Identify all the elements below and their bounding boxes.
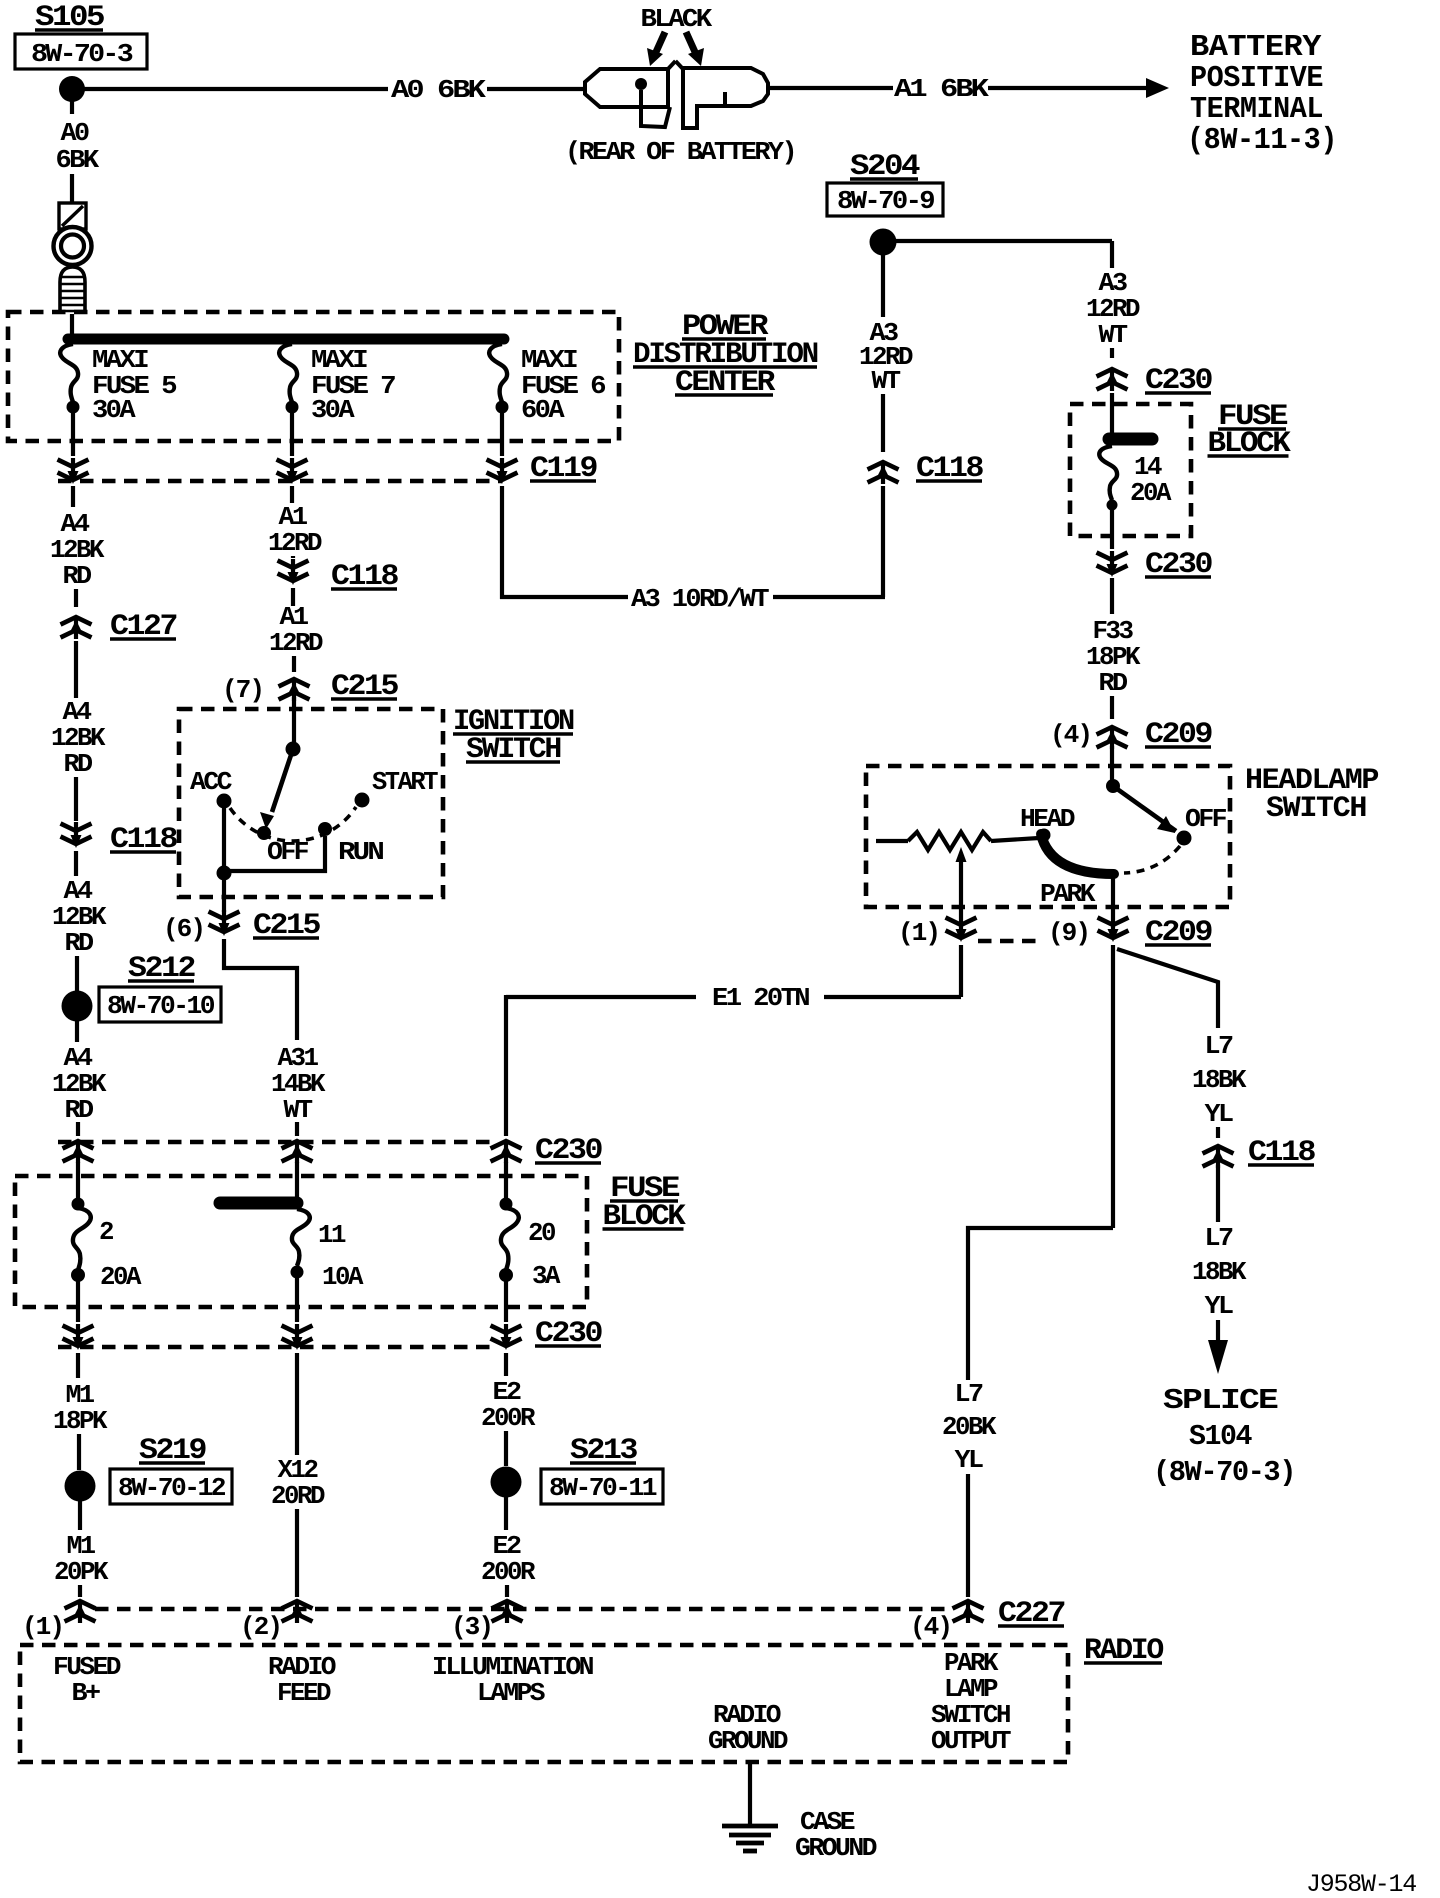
label RADIO FEED (268, 1652, 336, 1708)
label C209 pin 4 (1145, 718, 1212, 752)
label wire X12 20RD (271, 1455, 325, 1511)
wire fuse6 column down to A3 10RD/WT line (500, 486, 504, 599)
svg-text:START: START (372, 767, 438, 797)
wire E2 200R below fuse block (504, 1353, 508, 1376)
wire fuse 6 output to C119 (500, 412, 504, 456)
case ground symbol (722, 1826, 778, 1851)
connector C230 fuse2 entry (63, 1141, 94, 1163)
wire PARK output inside switch (1111, 874, 1115, 916)
label MAXI FUSE 6 60A (521, 345, 606, 425)
svg-text:L7: L7 (1205, 1223, 1233, 1253)
svg-text:(8W-70-3): (8W-70-3) (1153, 1456, 1295, 1489)
svg-text:12RD: 12RD (268, 528, 322, 558)
svg-text:18BK: 18BK (1192, 1065, 1247, 1095)
label fuse 14 20A (1130, 452, 1172, 508)
fuse 2 20A element (71, 1198, 91, 1283)
svg-text:PARK: PARK (1040, 879, 1096, 909)
wire A31 to fuse block (295, 1122, 299, 1136)
wire from RUN contact down and left to junction (224, 836, 325, 871)
connector C209 row dashed line (978, 939, 1042, 943)
svg-text:YL: YL (1205, 1099, 1234, 1129)
connector C209 pin 4 (1097, 727, 1128, 749)
svg-text:6BK: 6BK (56, 145, 100, 175)
label wire F33 18PK RD (1086, 616, 1141, 698)
connector C119 pin fuse5 (58, 458, 89, 484)
wire A4 to S212 (75, 956, 79, 991)
label pin (2) radio (240, 1612, 281, 1642)
wire into fuse 11 (295, 1162, 299, 1203)
label wire A1 12RD upper (268, 502, 322, 558)
svg-text:WT: WT (872, 366, 901, 396)
fuse 14 20A element (1099, 446, 1117, 511)
label ILLUMINATION LAMPS (432, 1652, 593, 1708)
in-line connector at rear of battery - left half (585, 69, 670, 127)
connector C230 right fuse block bottom (1097, 551, 1128, 577)
label wire A31 14BK WT (271, 1043, 326, 1125)
label C118 middle (331, 560, 398, 594)
node S204 splice label (827, 150, 943, 216)
wire into fuse 14 (1110, 393, 1114, 440)
wire M1 18PK below fuse block (76, 1353, 80, 1378)
svg-text:FEED: FEED (277, 1678, 331, 1708)
connector C230 into right fuse block (1097, 369, 1128, 391)
label fuse 20 and 3A (528, 1218, 561, 1291)
svg-text:OFF: OFF (267, 837, 309, 867)
svg-text:A0 6BK: A0 6BK (391, 75, 486, 105)
wire pin9 down long vertical (1111, 945, 1115, 1228)
svg-text:200R: 200R (481, 1403, 536, 1433)
svg-text:(3): (3) (451, 1612, 492, 1642)
fuse MAXI FUSE 6 60A element (489, 344, 508, 414)
connector C230 fuse20 exit (491, 1324, 522, 1350)
ignition switch OFF contact dot (257, 826, 271, 840)
connector C119 pin fuse6 (487, 458, 518, 484)
headlamp switch thick arc HEAD to PARK (1038, 829, 1115, 875)
wire fuse 20 output (504, 1280, 508, 1322)
label wire E2 200R upper (481, 1377, 536, 1433)
wire E1 20TN horizontal (506, 995, 961, 1136)
ignition switch dashed contact arc (230, 807, 356, 841)
wire C209 pin 4 into headlamp switch (1110, 746, 1114, 781)
svg-text:(4): (4) (910, 1612, 951, 1642)
wire into fuse 20 (504, 1162, 508, 1198)
label wire A0 6BK vertical (56, 118, 100, 175)
svg-text:YL: YL (955, 1445, 984, 1475)
svg-text:B+: B+ (72, 1678, 101, 1708)
connector C209 pin 9 (1098, 916, 1129, 942)
label START (372, 767, 438, 797)
svg-text:8W-70-9: 8W-70-9 (837, 186, 935, 216)
fuse MAXI FUSE 7 30A element (279, 344, 298, 414)
svg-text:BATTERY: BATTERY (1190, 30, 1322, 65)
svg-text:WT: WT (284, 1095, 313, 1125)
label wire A4 12BK RD block3 (52, 876, 107, 958)
svg-text:BLACK: BLACK (641, 4, 713, 34)
wire A1 to C215 pin 7 (292, 656, 296, 672)
wire fuse 11 output (295, 1277, 299, 1322)
svg-text:(6): (6) (163, 914, 204, 944)
fuse 14 20A bus stub (1109, 433, 1152, 446)
label wire L7 20BK YL (942, 1379, 997, 1475)
connector C227 pin 3 (492, 1601, 523, 1623)
svg-text:18BK: 18BK (1192, 1257, 1247, 1287)
label C118 below S204 (916, 452, 983, 486)
wire A4 to C118 left (74, 777, 78, 821)
label BATTERY POSITIVE TERMINAL (1187, 30, 1337, 158)
wire down to C230 fuse block feed (1110, 348, 1114, 358)
node S213 splice label (541, 1434, 663, 1504)
label wire M1 20PK (54, 1531, 109, 1587)
connector C227 pin 1 (65, 1601, 96, 1623)
fuse 20 3A element (499, 1198, 519, 1283)
ignition switch START contact dot (355, 793, 370, 808)
wire A4 below C118 left (74, 851, 78, 876)
label HEAD (1020, 804, 1075, 834)
connector C127 (61, 617, 92, 639)
connector C230 row top dashed line (58, 1140, 498, 1144)
svg-text:20: 20 (528, 1218, 556, 1248)
svg-text:OUTPUT: OUTPUT (931, 1726, 1011, 1756)
label CASE GROUND (795, 1807, 877, 1863)
connector C227 row dashed line (95, 1607, 952, 1611)
wire X12 to radio pin 2 (295, 1509, 299, 1597)
wire into fuse 2 (76, 1162, 80, 1198)
headlamp switch common contact dot (1106, 779, 1120, 793)
ignition switch RUN contact dot (318, 822, 332, 836)
connector C119 pin fuse7 (277, 458, 308, 484)
fuse 11 bus stub (220, 1197, 297, 1210)
label IGNITION SWITCH (453, 705, 574, 767)
label C230 right fuse block bottom (1145, 548, 1212, 582)
label C215 pin7 (331, 670, 398, 704)
label C118 right (1248, 1136, 1315, 1170)
fuse MAXI FUSE 5 30A element (60, 344, 79, 414)
svg-text:RD: RD (64, 749, 93, 779)
svg-text:J958W-14: J958W-14 (1306, 1870, 1416, 1898)
headlamp switch wiper arrow (956, 847, 967, 907)
svg-text:(REAR OF BATTERY): (REAR OF BATTERY) (565, 137, 795, 167)
wire radio ground to case ground (748, 1762, 752, 1824)
label pin (1) (898, 918, 939, 948)
node S105 splice label (15, 1, 147, 69)
wire A0 6BK horizontal from S105 to battery connector (83, 87, 584, 91)
label wire M1 18PK (53, 1380, 108, 1436)
svg-text:SWITCH: SWITCH (1266, 792, 1366, 826)
svg-text:LAMPS: LAMPS (477, 1678, 545, 1708)
svg-text:30A: 30A (92, 395, 136, 425)
label wire A4 12BK RD block2 (51, 697, 106, 779)
wire A1 6BK from connector to battery positive terminal (766, 86, 1148, 90)
svg-text:12RD: 12RD (269, 628, 323, 658)
svg-text:18PK: 18PK (53, 1406, 108, 1436)
connector C230 fuse20 entry (491, 1141, 522, 1163)
svg-text:11: 11 (318, 1220, 346, 1250)
svg-text:20RD: 20RD (271, 1481, 325, 1511)
label C230 row top (535, 1134, 602, 1168)
connector C227 pin 2 (282, 1601, 313, 1623)
headlamp switch rheostat resistor (876, 832, 1039, 850)
wire A4 to C127 (74, 589, 78, 607)
power distribution center box (8, 312, 619, 441)
node S219 splice dot (65, 1471, 96, 1502)
label wire L7 18BK YL lower (1192, 1223, 1247, 1321)
svg-text:(8W-11-3): (8W-11-3) (1187, 123, 1337, 158)
label pin (1) radio (22, 1612, 63, 1642)
label C209 row (1145, 916, 1212, 950)
svg-text:RUN: RUN (338, 837, 383, 867)
wire A1 12RD below C118 (291, 588, 295, 606)
svg-text:GROUND: GROUND (708, 1726, 788, 1756)
label SPLICE S104 8W-70-3 (1153, 1384, 1295, 1489)
ignition switch box (179, 709, 443, 897)
ignition junction dot (217, 866, 232, 881)
label pin (4) radio (910, 1612, 951, 1642)
label pin (7) (222, 675, 263, 705)
svg-text:SPLICE: SPLICE (1163, 1384, 1278, 1417)
svg-text:L7: L7 (955, 1379, 983, 1409)
wire A31 14BK WT jog to fuse block column (224, 939, 297, 1040)
node S219 splice label (110, 1434, 232, 1504)
connector C230 fuse2 exit (63, 1324, 94, 1350)
connector C227 pin 4 (953, 1601, 984, 1623)
label MAXI FUSE 7 30A (311, 345, 395, 425)
fuse block left box (15, 1176, 587, 1307)
headlamp switch box (866, 766, 1230, 907)
svg-text:200R: 200R (481, 1557, 536, 1587)
connector C118 left column (61, 822, 92, 848)
connector C118 right for L7 (1203, 1146, 1234, 1168)
svg-text:L7: L7 (1205, 1031, 1233, 1061)
fusible link / grommet symbol on PDC feed (54, 203, 92, 314)
svg-text:YL: YL (1205, 1291, 1234, 1321)
label wire A4 12BK RD block4 (52, 1043, 107, 1125)
wire from ACC contact down (222, 808, 226, 873)
svg-text:WT: WT (1099, 320, 1128, 350)
label wire A1 12RD lower (269, 602, 323, 658)
wire A4 to fuse block (76, 1122, 80, 1136)
wire L7 20BK YL jog from pin9 column to radio pin4 column (968, 1228, 1113, 1380)
svg-text:(2): (2) (240, 1612, 281, 1642)
svg-text:(1): (1) (898, 918, 939, 948)
node S212 splice label (99, 952, 221, 1022)
wire from S204 right to fuse block feed column (895, 239, 1112, 243)
ignition switch pivot dot (286, 742, 301, 757)
wire pin9 diagonal branch to L7 18BK YL (1117, 949, 1218, 1028)
wire A3 12RD WT right column from S204 junction (1110, 241, 1114, 268)
arrowhead to battery positive terminal (1146, 78, 1169, 98)
svg-text:60A: 60A (521, 395, 565, 425)
in-line connector at rear of battery - right half (668, 61, 768, 128)
node S212 splice dot (62, 991, 93, 1022)
label PARK (1040, 879, 1096, 909)
label wire A3 12RD WT at S204 (859, 318, 913, 396)
label C127 (110, 610, 176, 644)
label OFF (267, 837, 309, 867)
label POWER DISTRIBUTION CENTER (633, 310, 818, 400)
connector C209 pin 1 (946, 916, 977, 942)
svg-text:POSITIVE: POSITIVE (1190, 61, 1323, 96)
wire L7 18BK YL below C118 (1216, 1165, 1220, 1222)
wire L7 20BK YL to radio connector (966, 1474, 970, 1597)
label HEADLAMP SWITCH (1245, 764, 1378, 826)
svg-text:RD: RD (65, 928, 94, 958)
svg-text:(4): (4) (1050, 720, 1091, 750)
wire F33 18PK RD down from C230 (1110, 578, 1114, 614)
svg-text:ACC: ACC (190, 767, 232, 797)
wire A3 12RD WT down from S204 (881, 254, 885, 317)
label pin (6) (163, 914, 204, 944)
label wire A3 12RD WT right column (1086, 268, 1140, 350)
drawing number J958W-14 (1306, 1870, 1416, 1898)
label fuse 2 and 20A (99, 1217, 142, 1292)
wire A4 below C127 (74, 641, 78, 698)
connector C119 row dashed line (58, 479, 502, 483)
svg-text:RD: RD (1099, 668, 1128, 698)
node S105 splice dot (59, 76, 85, 102)
svg-text:20A: 20A (100, 1262, 142, 1292)
node S213 splice dot (491, 1467, 522, 1498)
svg-text:20A: 20A (1130, 478, 1172, 508)
svg-text:RD: RD (65, 1095, 94, 1125)
wire fuse 2 output (76, 1280, 80, 1322)
wire E2 below S213 (504, 1497, 508, 1530)
label pin (4) (1050, 720, 1091, 750)
PDC bus bar (68, 334, 504, 345)
wire F33 to C209 (1110, 696, 1114, 719)
svg-text:8W-70-11: 8W-70-11 (549, 1473, 657, 1503)
svg-text:A1 6BK: A1 6BK (894, 74, 989, 104)
wire from fusible link into PDC bus (70, 314, 74, 340)
wire fuse 5 output to C119 (71, 412, 75, 456)
label wire A3 10RD/WT (631, 584, 769, 614)
label ACC (190, 767, 232, 797)
svg-text:20BK: 20BK (942, 1412, 997, 1442)
wire wiper output inside switch (959, 907, 963, 916)
svg-text:10A: 10A (322, 1262, 364, 1292)
svg-text:A3 10RD/WT: A3 10RD/WT (631, 584, 769, 614)
svg-text:20PK: 20PK (54, 1557, 109, 1587)
right fuse block box (1070, 404, 1191, 536)
wire A4 below S212 (75, 1021, 79, 1042)
svg-text:E1 20TN: E1 20TN (712, 983, 809, 1013)
svg-text:8W-70-3: 8W-70-3 (31, 39, 133, 69)
label C230 right fuse block top (1145, 364, 1212, 398)
label REAR OF BATTERY (565, 137, 795, 167)
label pin (9) (1048, 918, 1089, 948)
wire M1 to radio pin 1 (78, 1585, 82, 1597)
svg-text:S104: S104 (1189, 1420, 1252, 1453)
fuse 11 10A element (291, 1209, 310, 1279)
connector C230 fuse11 entry (282, 1141, 313, 1163)
wire L7 to splice S104 arrow (1208, 1320, 1228, 1374)
svg-text:(7): (7) (222, 675, 263, 705)
svg-text:OFF: OFF (1185, 804, 1227, 834)
label fuse 11 and 10A (318, 1220, 364, 1292)
headlamp switch OFF contact dot (1177, 831, 1192, 846)
svg-text:2: 2 (99, 1217, 114, 1247)
node S204 splice dot (870, 229, 897, 256)
svg-text:TERMINAL: TERMINAL (1190, 92, 1323, 127)
headlamp switch dashed arc OFF to PARK (1124, 846, 1180, 873)
label FUSE BLOCK right (1208, 400, 1291, 461)
wire A1 12RD below C119 (290, 486, 294, 503)
connector C215 pin 7 (279, 679, 310, 701)
connector C215 pin 6 (209, 910, 240, 936)
label C119 (530, 452, 597, 486)
label wire E2 200R lower (481, 1531, 536, 1587)
label MAXI FUSE 5 30A (92, 345, 177, 425)
label RADIO (1084, 1634, 1163, 1668)
svg-text:30A: 30A (311, 395, 355, 425)
label BLACK (641, 4, 713, 34)
connector C230 row bottom dashed line (58, 1345, 495, 1349)
svg-text:8W-70-12: 8W-70-12 (118, 1473, 226, 1503)
label OFF (1185, 804, 1227, 834)
wire S204 column from C118 down to A3 10RD/WT line (881, 486, 885, 597)
label RUN (338, 837, 383, 867)
radio box (20, 1645, 1068, 1762)
svg-text:3A: 3A (532, 1261, 561, 1291)
label wire A0 6BK (391, 75, 486, 105)
wire E2 to S213 (504, 1431, 508, 1466)
wire A1 to C118 (291, 556, 295, 558)
wire fuse 14 output (1110, 510, 1114, 549)
wire A4 below C119 (71, 486, 75, 507)
headlamp switch blade to OFF with arrowhead (1113, 786, 1176, 833)
pointer arrows from BLACK to connector halves (647, 32, 704, 66)
label RADIO GROUND (708, 1700, 788, 1756)
wire fuse 7 output to C119 (290, 412, 294, 456)
wire E2 to radio pin 3 (505, 1585, 509, 1597)
label FUSE BLOCK left (603, 1172, 686, 1234)
label wire A1 6BK (894, 74, 989, 104)
wire S204 column to C118 (881, 394, 885, 452)
label PARK LAMP SWITCH OUTPUT (931, 1648, 1011, 1756)
wire junction down out of ignition switch (222, 879, 226, 912)
wire from S105 down to fusible link (70, 100, 74, 202)
label C118 left (110, 823, 177, 857)
wire M1 below S219 (78, 1501, 82, 1530)
label FUSED B+ (53, 1652, 121, 1708)
ignition switch blade with arrowhead to OFF (260, 749, 293, 829)
svg-text:RD: RD (63, 561, 92, 591)
wire into ignition switch (292, 697, 296, 749)
connector C118 below S204 (868, 462, 899, 484)
wire L7 to C118 (1216, 1127, 1220, 1138)
svg-text:A0: A0 (61, 118, 90, 148)
label C227 (998, 1597, 1064, 1631)
label pin (3) radio (451, 1612, 492, 1642)
connector C118 middle column (278, 559, 309, 585)
label wire L7 18BK YL upper (1192, 1031, 1247, 1129)
label C230 row bottom (535, 1317, 602, 1351)
wire M1 to S219 (77, 1434, 81, 1470)
svg-text:HEAD: HEAD (1020, 804, 1075, 834)
connector C230 fuse11 exit (282, 1324, 313, 1350)
label C215 pin6 (253, 909, 320, 943)
wire X12 20RD below fuse block (295, 1353, 299, 1455)
ignition switch ACC contact dot (217, 794, 232, 809)
wire pin1 down to E1 line (959, 945, 963, 997)
svg-text:(9): (9) (1048, 918, 1089, 948)
svg-text:(1): (1) (22, 1612, 63, 1642)
svg-text:8W-70-10: 8W-70-10 (107, 991, 215, 1021)
svg-text:GROUND: GROUND (795, 1833, 877, 1863)
label wire E1 20TN (712, 983, 809, 1013)
label wire A4 12BK RD block1 (50, 509, 105, 591)
wire A3 10RD/WT horizontal (500, 595, 885, 599)
